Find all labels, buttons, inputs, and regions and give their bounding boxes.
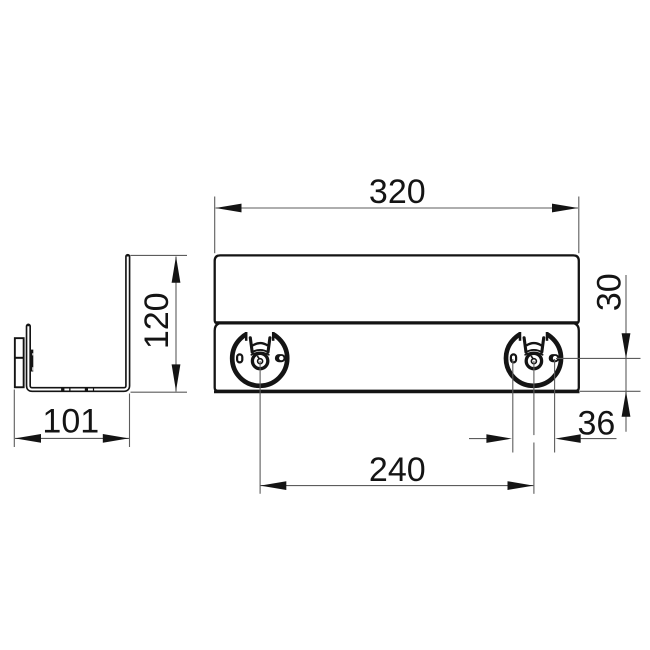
front view: middle separation line <box>216 321 578 324</box>
front view: bottom edge thick line <box>214 390 580 393</box>
dimension 240: left arrowhead <box>260 481 286 490</box>
dimension 101: left arrowhead <box>15 434 41 443</box>
dimension 240: dimension line <box>260 485 533 487</box>
right mounting rosette <box>506 327 561 386</box>
right rosette: right screw-hole extension line <box>554 359 556 453</box>
side view: bracket hook bar <box>31 350 34 372</box>
dimension 120: bottom extension line <box>131 391 188 393</box>
side view: wall mounting plate <box>15 338 24 387</box>
dimension 36: right arrowhead (pointing left) <box>555 434 581 443</box>
svg-text:36: 36 <box>577 404 615 442</box>
left rosette: centre line to 240 dimension <box>259 361 261 494</box>
dimension 36: left tail line <box>469 438 487 440</box>
right rosette: centre line to 240 dimension (broken at 36 dim line) <box>533 361 535 435</box>
front view: lower shelf rail (rounded rect) <box>215 323 579 391</box>
dimension 240: right arrowhead <box>508 481 534 490</box>
dimension 101: left extension line <box>13 390 15 448</box>
dimension 120: upper arrowhead <box>172 256 181 283</box>
dimension 30: dimension line <box>625 275 627 432</box>
dimension 320: left arrowhead <box>215 204 241 213</box>
svg-text:240: 240 <box>369 451 426 489</box>
right rosette: centre-height extension line to 30 dimension <box>556 357 641 359</box>
side view: joint plugs in bottom edge <box>61 388 94 390</box>
dimension 120: top extension line <box>130 254 187 256</box>
dimension 320: right extension line <box>578 197 580 254</box>
dimension 320: right arrowhead <box>552 204 578 213</box>
dimension 320: dimension line <box>216 207 579 209</box>
svg-text:30: 30 <box>591 273 629 311</box>
dimension 30: bottom extension line <box>580 390 641 392</box>
right rosette: left screw-hole extension line <box>512 359 514 453</box>
dimension 101: right extension line <box>129 394 131 448</box>
dimension 101: dimension line <box>15 437 129 439</box>
dimension 120: lower arrowhead <box>172 364 181 391</box>
dimension 36: right tail line <box>581 438 617 440</box>
dimension 101: right arrowhead <box>103 434 129 443</box>
svg-text:120: 120 <box>138 292 176 349</box>
dimension 320: left extension line <box>214 197 216 254</box>
left mounting rosette <box>232 327 287 386</box>
dimension 30: upper arrowhead (pointing down) <box>622 333 631 359</box>
side view: wall plate divider line <box>15 357 24 359</box>
dimension 36: left arrowhead (pointing right) <box>486 434 512 443</box>
side view: shelf J-profile (front face, bottom, back lip) <box>28 257 127 390</box>
dimension 120: dimension line <box>175 257 177 392</box>
svg-text:101: 101 <box>42 402 99 440</box>
dimension 30: lower arrowhead (pointing up) <box>622 391 631 417</box>
svg-text:320: 320 <box>369 173 426 211</box>
front view: upper shelf body (rounded rect) <box>215 255 579 323</box>
